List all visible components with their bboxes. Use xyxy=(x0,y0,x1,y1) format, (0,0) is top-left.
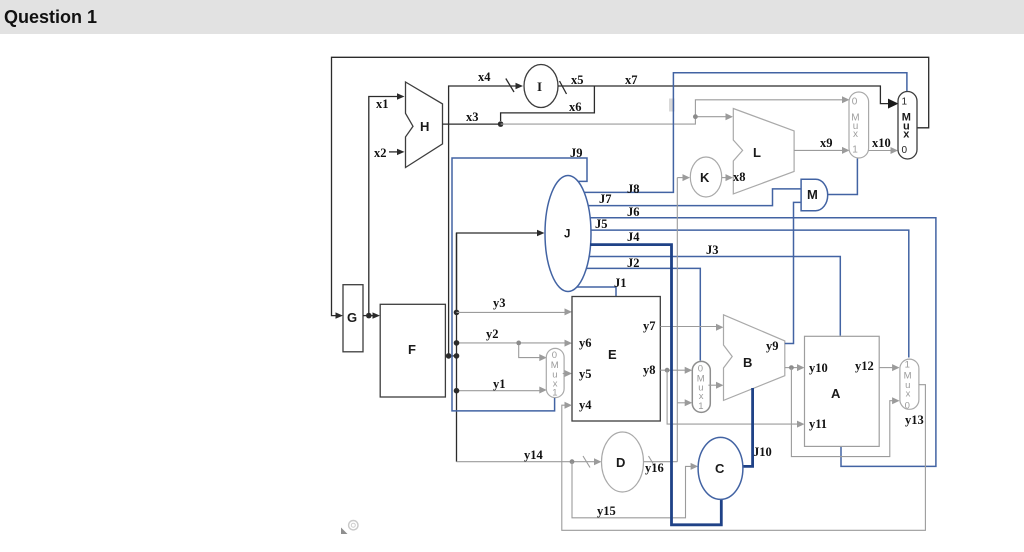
wire x3 from H to junction xyxy=(443,121,504,127)
register K xyxy=(690,157,721,197)
svg-text:y4: y4 xyxy=(579,398,592,412)
svg-text:y2: y2 xyxy=(486,327,499,341)
wire J4 thick from J to C bottom xyxy=(590,245,721,525)
svg-text:x2: x2 xyxy=(374,146,387,160)
svg-text:x: x xyxy=(903,128,910,140)
svg-text:0: 0 xyxy=(905,400,910,411)
wire x1 from G output up to H input xyxy=(366,93,405,318)
wire Mux3 output to E y5 xyxy=(563,370,572,377)
svg-text:y8: y8 xyxy=(643,363,656,377)
wire feedback loop from Mux2 output to G input xyxy=(332,57,929,319)
wire F output to bus verticals xyxy=(445,353,459,359)
svg-text:0: 0 xyxy=(852,96,858,107)
svg-text:J2: J2 xyxy=(627,256,640,270)
svg-text:1: 1 xyxy=(552,387,557,398)
wire J1 from J to E top xyxy=(577,287,616,296)
wire y9 from B up to M input B xyxy=(785,202,801,343)
svg-text:B: B xyxy=(743,355,752,370)
svg-text:J8: J8 xyxy=(627,182,640,196)
svg-text:x10: x10 xyxy=(872,136,891,150)
wire J2 from J to Mux4 select xyxy=(587,268,701,360)
wire J5 from J to Mux5 select xyxy=(591,230,909,357)
svg-text:M: M xyxy=(807,187,818,202)
svg-text:y13: y13 xyxy=(905,413,924,427)
svg-text:C: C xyxy=(715,461,725,476)
wire into K from y16 vertical xyxy=(677,174,690,181)
svg-text:y12: y12 xyxy=(855,359,874,373)
wire x4 from F output up and right to I xyxy=(446,79,523,359)
gray wire x3 extension to L and Mux1 input 0 xyxy=(501,96,850,124)
svg-text:y9: y9 xyxy=(766,339,779,353)
svg-text:x6: x6 xyxy=(569,100,582,114)
svg-text:x8: x8 xyxy=(733,170,746,184)
svg-text:G: G xyxy=(347,310,357,325)
gray artifact rectangle xyxy=(669,99,675,112)
svg-text:y11: y11 xyxy=(809,417,827,431)
wire A output y12 to Mux5 input 1 xyxy=(879,364,899,371)
svg-text:x: x xyxy=(906,389,911,400)
wire y7 from E to B xyxy=(660,324,723,331)
svg-text:x: x xyxy=(699,391,704,402)
register I xyxy=(524,65,558,108)
wire J8 from J to Mux2 select xyxy=(584,73,907,193)
wire y8 branch down to A y11 xyxy=(667,370,804,427)
wire x10 from Mux1 to Mux2 input 0 xyxy=(869,147,898,154)
mux H xyxy=(406,82,443,168)
svg-text:J10: J10 xyxy=(753,445,772,459)
svg-text:x1: x1 xyxy=(376,97,389,111)
svg-text:F: F xyxy=(408,342,416,357)
svg-text:x: x xyxy=(853,129,858,140)
spinner icon xyxy=(349,521,358,530)
svg-text:1: 1 xyxy=(902,97,908,108)
svg-text:J3: J3 xyxy=(706,243,719,257)
svg-text:x4: x4 xyxy=(478,70,491,84)
mux L xyxy=(733,109,794,194)
svg-text:x3: x3 xyxy=(466,110,479,124)
register G xyxy=(343,285,363,352)
block E xyxy=(572,297,660,422)
mux5 gray 1Mux0 xyxy=(900,359,919,411)
mux4 gray 0Mux1 xyxy=(692,361,710,412)
svg-text:1: 1 xyxy=(698,401,703,412)
wire J6 from J to A bottom xyxy=(590,218,936,467)
wire B output to A y10 xyxy=(785,364,805,371)
wire y1 to Mux3 input 1 xyxy=(454,387,547,394)
svg-text:J5: J5 xyxy=(595,217,608,231)
mux1 gray 0Mux1 xyxy=(849,92,869,158)
wire y16 from D to vertical xyxy=(644,456,678,468)
wire J9 from J top to Mux3 select xyxy=(452,158,587,411)
svg-text:x5: x5 xyxy=(571,73,584,87)
wire x8 from K to L xyxy=(722,174,733,181)
svg-text:y7: y7 xyxy=(643,319,656,333)
bus vertical from J input down to y14 xyxy=(456,233,458,462)
svg-text:y15: y15 xyxy=(597,504,616,518)
wire J7 from J to M input A xyxy=(588,189,801,206)
wire x5/x7 from I to Mux2 input 1 xyxy=(558,81,899,109)
svg-text:H: H xyxy=(420,119,429,134)
wire y8 from E to Mux4 input 0 xyxy=(660,367,692,374)
svg-text:D: D xyxy=(616,455,625,470)
wire y2 to E y6 and branch to Mux3 input 0 xyxy=(454,340,572,362)
svg-text:I: I xyxy=(537,79,542,94)
svg-text:J6: J6 xyxy=(627,205,640,219)
svg-text:x7: x7 xyxy=(625,73,638,87)
register C xyxy=(698,437,743,499)
mux B xyxy=(724,315,785,401)
register D xyxy=(602,432,644,492)
wire y15 from y14 junction to C input xyxy=(572,462,698,518)
wire y14 from bus to D xyxy=(457,456,602,468)
wire x6 branch down to x3 junction xyxy=(501,86,595,121)
and gate M xyxy=(801,179,828,210)
svg-text:y10: y10 xyxy=(809,361,828,375)
wire J10 thick from C to B select xyxy=(743,388,753,466)
wire B output branch to Mux5 input 0 xyxy=(791,368,899,457)
wire x2 arrow into H xyxy=(389,149,405,155)
mux2 black 1Mux0 xyxy=(898,92,917,160)
svg-text:y14: y14 xyxy=(524,448,544,462)
wire Mux4 output to B xyxy=(708,382,723,389)
svg-text:y5: y5 xyxy=(579,367,592,381)
svg-text:1: 1 xyxy=(852,145,858,156)
wire y3 to E xyxy=(457,308,573,315)
wire y16 vertical up to K and branch to Mux4 input 1 xyxy=(677,178,692,462)
svg-text:L: L xyxy=(753,145,761,160)
wire J input from bus xyxy=(454,230,545,315)
wire M output to Mux1 select xyxy=(828,159,858,195)
svg-text:1: 1 xyxy=(905,360,910,371)
mux3 gray 0Mux1 xyxy=(546,348,564,398)
svg-text:x9: x9 xyxy=(820,136,833,150)
svg-text:y1: y1 xyxy=(493,377,506,391)
svg-text:J: J xyxy=(564,229,570,241)
svg-text:0: 0 xyxy=(902,145,908,156)
svg-text:K: K xyxy=(700,170,710,185)
block A xyxy=(805,336,880,446)
svg-text:A: A xyxy=(831,386,841,401)
wire J3 from J to A top xyxy=(589,257,840,336)
cursor icon xyxy=(341,528,348,535)
wire y13 from Mux5 around to E y4 xyxy=(562,385,926,531)
wire G output to F input xyxy=(363,312,380,318)
block F xyxy=(380,304,445,397)
svg-text:y6: y6 xyxy=(579,336,592,350)
svg-text:y3: y3 xyxy=(493,296,506,310)
register J xyxy=(545,176,591,292)
svg-text:E: E xyxy=(608,347,617,362)
svg-text:y16: y16 xyxy=(645,461,664,475)
svg-text:J7: J7 xyxy=(599,192,612,206)
wire x9 from L to Mux1 input 1 xyxy=(794,147,849,154)
svg-text:J1: J1 xyxy=(614,276,627,290)
svg-text:J4: J4 xyxy=(627,230,640,244)
